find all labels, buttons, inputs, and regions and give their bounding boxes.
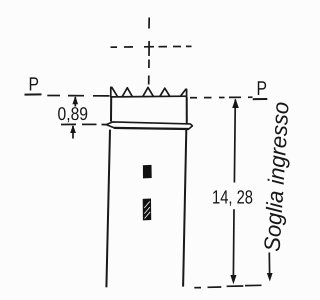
parapet base line [111,95,187,98]
right P underline [253,98,268,100]
svg-text:Soglia ingresso: Soglia ingresso [260,101,294,252]
soglia leader arrow [267,253,273,282]
svg-text:0,89: 0,89 [58,103,89,124]
merlon 3 [160,88,170,96]
left corner spike [111,87,118,97]
dimension 0,89 upper arrow [72,96,78,107]
dimension line 14,28 upper segment with up arrow [232,98,239,182]
merlon 1 [122,88,132,97]
svg-text:P: P [257,78,268,100]
label P right [257,78,268,100]
dimension line 14,28 lower segment with down arrow [230,209,236,284]
right corner spike [180,89,186,97]
cornice [106,122,192,129]
window upper [143,165,152,179]
svg-text:P: P [29,75,40,96]
dimension text 0,89 [58,103,89,124]
shaft wall right [183,130,186,287]
upper wall right [186,97,188,124]
tower parapet with merlons [111,87,187,97]
label P left [29,75,40,96]
label Soglia ingresso [260,101,294,252]
merlon 2 [143,87,154,96]
vertical centerline [148,18,151,85]
dimension 0,89 lower dashed line [61,123,106,125]
svg-text:14, 28: 14, 28 [212,188,253,209]
dimension text 14,28 [212,188,253,209]
horizontal centerline [111,45,192,48]
left P underline [25,93,42,95]
upper wall left [110,97,112,122]
shaft wall left [106,130,110,288]
dimension 0,89 lower arrow [70,125,76,139]
right level dashed line P [190,96,253,99]
window lower [143,199,152,221]
threshold dashed line [194,285,261,287]
left level dashed line P [47,95,109,97]
